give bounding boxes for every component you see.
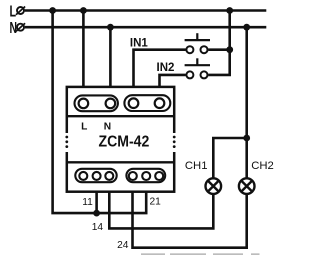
svg-text:24: 24	[117, 240, 129, 251]
device right edge break dots	[173, 136, 176, 148]
svg-text:IN2: IN2	[157, 62, 175, 74]
wire N to device terminal N	[109, 27, 112, 98]
svg-text:L: L	[10, 4, 17, 21]
wire N to lamp CH2	[245, 27, 248, 178]
svg-text:11: 11	[82, 197, 93, 208]
device bottom terminal group 24 21	[126, 169, 165, 182]
wire terminal 11 drop	[95, 181, 98, 213]
wire L to terminals 11/21 (left drop and bottom run)	[53, 11, 147, 214]
device bottom terminal group 11 14	[75, 169, 116, 182]
svg-text:14: 14	[92, 222, 104, 233]
lamp CH1	[206, 178, 222, 194]
wire branch to lamp CH1	[213, 138, 246, 179]
svg-text:N: N	[10, 20, 18, 37]
device left edge break dots	[65, 136, 68, 148]
lamp CH2	[239, 178, 255, 194]
node N-device junction	[107, 24, 114, 31]
wire N line	[25, 26, 267, 29]
wire IN2 switch to device IN2 terminal	[160, 75, 186, 99]
svg-text:21: 21	[150, 196, 162, 207]
svg-text:CH1: CH1	[185, 160, 208, 172]
node N-lamp junction	[243, 24, 250, 31]
svg-text:IN1: IN1	[130, 37, 149, 49]
device U1 ZCM-42 body	[64, 87, 176, 192]
wire L to device terminal L	[82, 11, 85, 99]
faint artifact line bottom	[141, 253, 260, 255]
pushbutton IN1	[185, 33, 210, 53]
wire lamp CH2 to terminal 24	[133, 181, 247, 248]
node L-device junction	[80, 7, 87, 14]
wire L line	[25, 9, 267, 12]
wire IN1 switch to device IN1 terminal	[134, 50, 186, 99]
node terminal 11 junction	[93, 210, 100, 217]
svg-text:CH2: CH2	[251, 160, 274, 172]
wire lamp CH1 to terminal 14	[109, 181, 213, 229]
device top terminal group L N	[75, 95, 118, 111]
pushbutton IN2	[185, 58, 210, 78]
terminal N	[16, 23, 25, 31]
device top terminal group IN1 IN2	[124, 95, 170, 111]
wire L to pushbutton feed	[208, 11, 230, 75]
terminal L	[16, 7, 25, 15]
svg-text:L: L	[81, 122, 87, 133]
node L-switch junction	[226, 7, 233, 14]
node IN1 feed junction	[226, 46, 233, 53]
node L-left junction	[49, 7, 56, 14]
wire IN1 switch to feed	[208, 48, 230, 51]
svg-text:ZCM-42: ZCM-42	[99, 134, 150, 151]
svg-text:N: N	[104, 122, 111, 133]
node lamp branch junction	[243, 135, 250, 142]
